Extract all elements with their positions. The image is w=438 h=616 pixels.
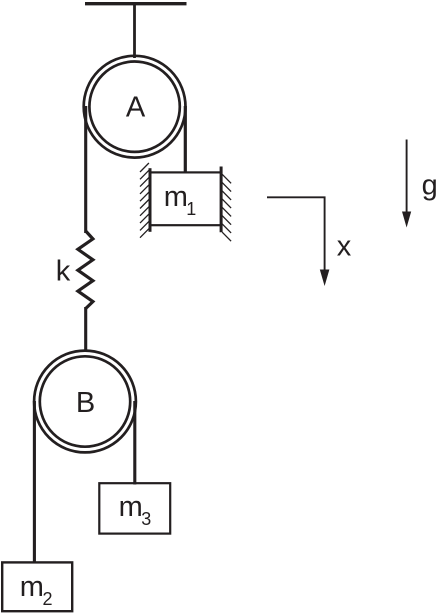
svg-text:2: 2: [43, 589, 53, 609]
wire: rope ceiling to pulley A: [133, 3, 136, 58]
mass m1: [150, 172, 221, 225]
wire: rope pulley A left side down to spring: [84, 106, 87, 233]
svg-text:m: m: [119, 491, 143, 523]
label m3: [119, 491, 152, 529]
wire: rope pulley A right side to mass m1: [184, 106, 187, 173]
svg-text:A: A: [126, 91, 146, 123]
wall left of m1 (with hatching): [140, 163, 150, 238]
mass m2: [2, 562, 72, 611]
wire: rope pulley B right side to mass m3: [133, 401, 136, 485]
svg-text:k: k: [56, 256, 71, 288]
svg-text:g: g: [422, 169, 438, 201]
pulley B: [34, 351, 136, 453]
svg-text:1: 1: [186, 199, 196, 219]
x-axis reference line: [267, 197, 325, 270]
spring k: [78, 231, 93, 309]
wire: rope spring to pulley B: [84, 307, 87, 352]
svg-text:x: x: [337, 230, 352, 262]
ceiling: [85, 2, 187, 5]
gravity arrow g: [402, 140, 411, 228]
label m1: [164, 181, 197, 219]
x-axis arrowhead: [320, 270, 330, 287]
mass m3: [99, 483, 170, 533]
pulley A: [84, 56, 186, 158]
svg-text:m: m: [164, 181, 188, 213]
wall right of m1 (with hatching): [221, 167, 231, 242]
svg-text:3: 3: [141, 509, 151, 529]
wire: rope pulley B left side to mass m2: [33, 401, 36, 563]
svg-text:B: B: [76, 387, 95, 419]
svg-text:m: m: [20, 571, 44, 603]
label m2: [20, 571, 53, 609]
